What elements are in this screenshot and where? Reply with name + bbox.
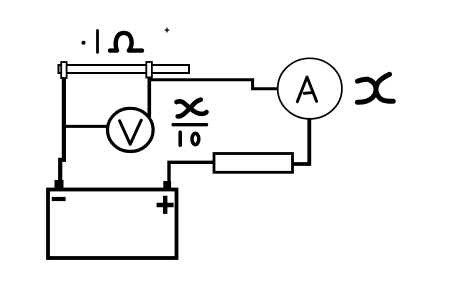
wire: from R1 right tick down to voltmeter top (148, 77, 152, 118)
resistor R2 (214, 154, 293, 173)
label − (negative) (52, 197, 66, 201)
value label .1Ω (82, 31, 143, 53)
voltmeter V1 (108, 108, 154, 151)
label x/10 multiplier (173, 100, 206, 146)
terminal tick left on R1 (61, 62, 66, 78)
wire: top run from R1 right tick to ammeter (with step) (148, 80, 278, 89)
label V (120, 120, 142, 144)
label X (unknown current) (357, 74, 393, 102)
wire: horizontal into voltmeter (63, 125, 107, 128)
label A (297, 77, 316, 102)
label + (positive) (157, 196, 174, 214)
stray ink mark (small +) (165, 28, 170, 33)
battery positive terminal (163, 181, 171, 189)
ammeter A1 (278, 58, 342, 119)
wire: left vertical from R1 left tick down to battery negative (60, 78, 64, 183)
wire: R2 left end to battery positive terminal (169, 162, 214, 182)
wire: R2 right end to ammeter bottom (292, 120, 309, 165)
terminal tick right on R1 (146, 62, 152, 78)
resistor R1 (shunt bar) (59, 65, 190, 73)
battery BT1 (48, 190, 177, 259)
battery negative terminal (55, 180, 64, 190)
